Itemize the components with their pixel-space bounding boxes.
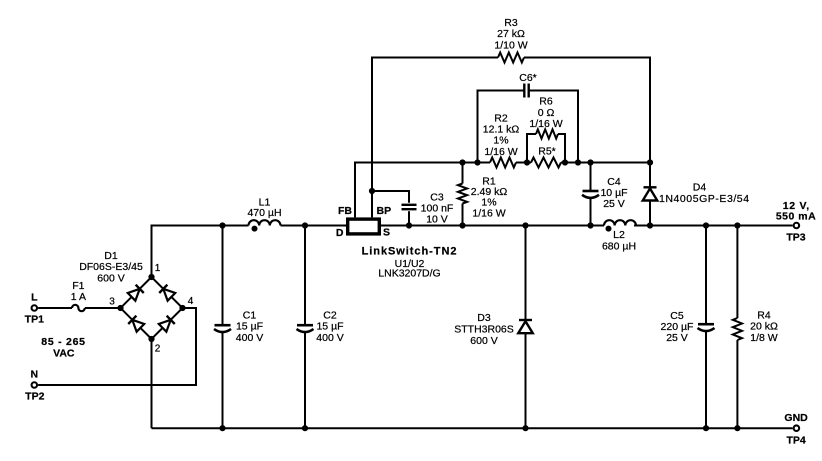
junction C5 top xyxy=(703,222,709,228)
junction R4 bottom xyxy=(734,425,740,431)
svg-text:R2: R2 xyxy=(494,112,508,124)
svg-text:12.1 kΩ: 12.1 kΩ xyxy=(483,124,520,136)
L2 winding start dot xyxy=(606,226,612,232)
svg-text:LNK3207D/G: LNK3207D/G xyxy=(378,268,440,280)
inductor L1 xyxy=(249,220,281,225)
svg-text:TP4: TP4 xyxy=(786,435,805,447)
svg-text:1/16 W: 1/16 W xyxy=(529,118,562,130)
svg-text:400 V: 400 V xyxy=(316,332,343,344)
inductor L2 xyxy=(604,220,636,225)
svg-text:BP: BP xyxy=(377,205,392,217)
svg-text:15 µF: 15 µF xyxy=(316,321,343,333)
output terminal TP3 xyxy=(794,223,800,229)
junction R2-R5-R6 node xyxy=(524,159,530,165)
L1 winding start dot xyxy=(252,226,258,232)
svg-text:TP3: TP3 xyxy=(786,232,805,244)
wire C4 node to D4 node xyxy=(591,162,651,164)
resistor R6 xyxy=(527,134,536,163)
diode D4 xyxy=(649,163,651,188)
svg-text:25 V: 25 V xyxy=(666,332,688,344)
capacitor C3 xyxy=(372,191,409,203)
svg-text:100 nF: 100 nF xyxy=(421,203,454,215)
svg-text:L2: L2 xyxy=(613,229,625,241)
capacitor C5 xyxy=(705,226,707,324)
svg-text:R6: R6 xyxy=(539,96,553,108)
junction C5 bottom xyxy=(703,425,709,431)
svg-text:TP1: TP1 xyxy=(25,314,44,326)
capacitor C6 xyxy=(478,91,525,163)
svg-text:R3: R3 xyxy=(504,17,518,29)
capacitor C2 xyxy=(304,226,306,325)
svg-text:C3: C3 xyxy=(430,191,444,203)
svg-text:470 µH: 470 µH xyxy=(247,207,281,219)
pin BP wire xyxy=(371,191,373,217)
wire feedback rail R1 to R2 xyxy=(463,162,491,164)
junction C1 bottom xyxy=(219,425,225,431)
junction C4 top xyxy=(587,159,593,165)
svg-text:600 V: 600 V xyxy=(470,335,497,347)
bridge rectifier D1 frame xyxy=(121,277,183,339)
bridge diode D1b (pin4 to pin1) xyxy=(159,285,175,301)
svg-text:27 kΩ: 27 kΩ xyxy=(497,28,525,40)
junction R4 top xyxy=(734,222,740,228)
junction C1 top xyxy=(219,222,225,228)
svg-text:N: N xyxy=(31,369,39,381)
input terminal TP1 (L) xyxy=(32,305,38,311)
svg-text:C4: C4 xyxy=(607,176,621,188)
wire R2 to R5 xyxy=(516,162,531,164)
junction BP node xyxy=(369,188,375,194)
svg-text:STTH3R06S: STTH3R06S xyxy=(454,324,514,336)
svg-text:1 A: 1 A xyxy=(71,291,86,303)
wire TP1 to fuse F1 xyxy=(38,307,72,309)
svg-text:10 V: 10 V xyxy=(426,214,448,226)
svg-text:C1: C1 xyxy=(243,310,257,322)
junction C4 bottom xyxy=(587,222,593,228)
junction C6 right xyxy=(575,159,581,165)
svg-text:R5*: R5* xyxy=(538,145,556,157)
svg-text:1: 1 xyxy=(155,263,161,274)
svg-text:F1: F1 xyxy=(72,280,84,292)
resistor R5 xyxy=(531,158,561,168)
svg-text:600 V: 600 V xyxy=(97,272,124,284)
wire TP2 to bridge pin 4 xyxy=(38,308,196,385)
capacitor C1 xyxy=(222,226,224,325)
svg-text:GND: GND xyxy=(784,412,808,424)
ground terminal TP4 xyxy=(794,425,800,431)
wire fuse F1 to bridge pin 3 xyxy=(85,307,121,309)
svg-text:1%: 1% xyxy=(493,135,508,147)
svg-text:20 kΩ: 20 kΩ xyxy=(750,321,778,333)
bridge diode D1d (pin2 to pin4) xyxy=(159,316,175,332)
svg-text:R4: R4 xyxy=(757,309,771,321)
wire bridge pin 2 to ground rail xyxy=(151,339,153,428)
resistor R3 xyxy=(372,58,498,192)
wire L1 to U1 drain xyxy=(281,225,347,227)
junction C3 bottom xyxy=(406,222,412,228)
svg-text:1/10 W: 1/10 W xyxy=(494,39,527,51)
svg-text:L: L xyxy=(31,292,38,304)
svg-text:400 V: 400 V xyxy=(236,332,263,344)
wire bridge pin 1 to L1 xyxy=(152,226,249,278)
junction D4 anode node xyxy=(647,222,653,228)
resistor R2 xyxy=(490,158,516,168)
svg-text:D4: D4 xyxy=(693,181,707,193)
svg-text:1N4005GP-E3/54: 1N4005GP-E3/54 xyxy=(659,193,750,205)
svg-text:S: S xyxy=(383,227,390,239)
svg-text:85 - 265: 85 - 265 xyxy=(41,336,86,348)
svg-text:D: D xyxy=(336,227,344,239)
junction C2 bottom xyxy=(302,425,308,431)
svg-text:3: 3 xyxy=(109,297,115,308)
node bridge pin 3 xyxy=(117,305,123,311)
svg-text:220 µF: 220 µF xyxy=(661,321,694,333)
ground return rail xyxy=(152,427,793,429)
svg-text:25 V: 25 V xyxy=(603,198,625,210)
svg-text:680 µH: 680 µH xyxy=(602,240,636,252)
svg-text:0 Ω: 0 Ω xyxy=(538,107,555,119)
svg-text:10 µF: 10 µF xyxy=(600,187,627,199)
wire U1 source to L2 xyxy=(381,225,604,227)
junction R1 bottom xyxy=(459,222,465,228)
svg-text:550 mA: 550 mA xyxy=(776,210,816,222)
svg-text:C6*: C6* xyxy=(519,72,537,84)
pin FB wire xyxy=(355,163,463,218)
svg-text:4: 4 xyxy=(188,296,194,307)
bridge diode D1a (pin3 to pin1) xyxy=(128,285,144,301)
op-amp U1 LinkSwitch-TN2 package xyxy=(348,219,380,234)
svg-text:1/8 W: 1/8 W xyxy=(750,332,778,344)
bridge diode D1c (pin2 to pin3) xyxy=(128,316,144,332)
svg-text:15 µF: 15 µF xyxy=(236,321,263,333)
junction R5-R6 right node xyxy=(562,159,568,165)
junction C2 top xyxy=(302,222,308,228)
svg-text:DF06S-E3/45: DF06S-E3/45 xyxy=(79,261,143,273)
svg-text:TP2: TP2 xyxy=(25,391,44,403)
junction R1 top xyxy=(459,159,465,165)
svg-text:2: 2 xyxy=(155,344,161,355)
svg-text:VAC: VAC xyxy=(53,348,75,360)
fuse F1 xyxy=(72,305,85,311)
svg-text:D3: D3 xyxy=(477,312,491,324)
resistor R1 xyxy=(462,163,464,184)
node bridge pin 2 xyxy=(148,336,154,342)
svg-text:1/16 W: 1/16 W xyxy=(484,146,517,158)
svg-text:1/16 W: 1/16 W xyxy=(472,207,505,219)
svg-text:D1: D1 xyxy=(104,250,118,262)
junction D4 cathode node xyxy=(647,159,653,165)
junction D3 cathode node xyxy=(522,222,528,228)
wire R5 to C4 node xyxy=(561,162,591,164)
junction D3 anode node xyxy=(522,425,528,431)
svg-text:LinkSwitch-TN2: LinkSwitch-TN2 xyxy=(362,245,458,257)
input terminal TP2 (N) xyxy=(32,382,38,388)
svg-text:FB: FB xyxy=(338,205,352,217)
node bridge pin 1 xyxy=(148,274,154,280)
svg-text:C2: C2 xyxy=(323,310,337,322)
junction C6 left xyxy=(474,159,480,165)
resistor R4 xyxy=(736,226,738,319)
diode D3 xyxy=(525,226,527,321)
capacitor C4 xyxy=(590,163,592,191)
svg-text:C5: C5 xyxy=(670,310,684,322)
node bridge pin 4 xyxy=(179,305,185,311)
wire L2 to TP3 output xyxy=(634,225,793,227)
